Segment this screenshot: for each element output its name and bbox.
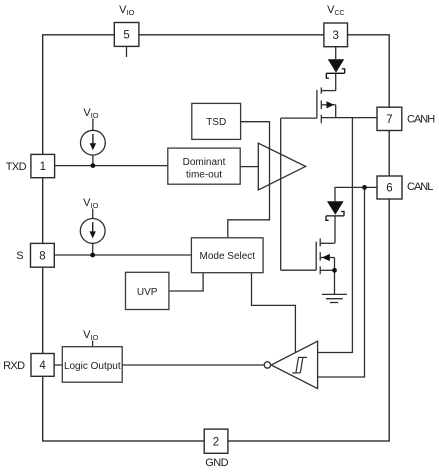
svg-text:7: 7 [386, 114, 392, 126]
svg-text:UVP: UVP [137, 287, 158, 298]
svg-text:RXD: RXD [3, 360, 25, 372]
svg-text:5: 5 [123, 30, 129, 42]
svg-text:8: 8 [39, 251, 45, 263]
svg-text:TXD: TXD [6, 161, 27, 173]
svg-text:4: 4 [39, 360, 46, 372]
svg-text:Mode Select: Mode Select [200, 251, 256, 262]
svg-text:1: 1 [40, 161, 46, 173]
svg-text:Logic Output: Logic Output [64, 361, 121, 372]
svg-text:2: 2 [213, 436, 219, 448]
svg-text:GND: GND [205, 457, 228, 469]
svg-text:CANH: CANH [407, 113, 435, 125]
svg-text:time-out: time-out [186, 170, 222, 181]
svg-text:TSD: TSD [206, 117, 226, 128]
svg-text:3: 3 [332, 30, 338, 42]
svg-text:Dominant: Dominant [183, 157, 226, 168]
svg-text:CANL: CANL [407, 181, 433, 193]
svg-text:S: S [16, 250, 23, 262]
svg-text:6: 6 [386, 183, 392, 195]
